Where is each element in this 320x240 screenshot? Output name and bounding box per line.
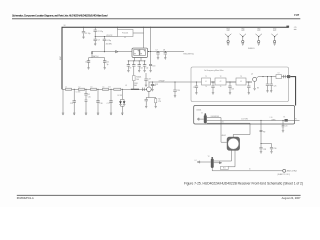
- svg-text:C15: C15: [88, 97, 91, 99]
- svg-text:August 24, 2007: August 24, 2007: [282, 196, 301, 200]
- svg-text:3p: 3p: [107, 64, 109, 66]
- svg-text:E1: E1: [284, 117, 286, 119]
- svg-text:D2 D3: D2 D3: [118, 95, 123, 97]
- svg-text:Schematics, Component Location: Schematics, Component Location Diagrams,…: [12, 15, 108, 18]
- svg-text:42: 42: [220, 81, 222, 83]
- svg-text:T4: T4: [201, 113, 203, 115]
- svg-text:T3: T3: [240, 76, 242, 78]
- svg-text:455 MHz: 455 MHz: [106, 43, 113, 45]
- svg-text:6816532H01-A: 6816532H01-A: [17, 197, 34, 200]
- svg-text:J 25: J 25: [294, 27, 297, 29]
- svg-text:C17: C17: [107, 103, 110, 105]
- svg-text:TP40: TP40: [226, 28, 230, 30]
- svg-text:GND: GND: [226, 30, 229, 32]
- svg-text:L3: L3: [91, 87, 93, 89]
- svg-text:TP40: TP40: [241, 28, 245, 30]
- svg-text:GND: GND: [273, 30, 276, 32]
- svg-text:C25: C25: [274, 86, 277, 88]
- svg-text:Q2: Q2: [251, 73, 253, 75]
- svg-text:LO1: LO1: [221, 122, 224, 124]
- svg-text:2ND LO INJ: 2ND LO INJ: [287, 171, 297, 173]
- svg-text:C7: C7: [156, 49, 158, 51]
- svg-text:SHIELD: SHIELD: [248, 48, 255, 50]
- svg-text:T1: T1: [205, 76, 207, 78]
- svg-text:C22: C22: [108, 86, 111, 88]
- svg-text:LP FLTR: LP FLTR: [106, 35, 113, 37]
- svg-text:.1: .1: [148, 81, 149, 83]
- svg-text:C3: C3: [97, 40, 99, 42]
- svg-text:IF1: IF1: [295, 118, 297, 120]
- svg-text:L2: L2: [79, 87, 81, 89]
- svg-text:C11: C11: [140, 67, 143, 69]
- svg-text:RX1 (SHT 2): RX1 (SHT 2): [184, 53, 195, 55]
- svg-text:C23: C23: [231, 88, 234, 90]
- svg-text:C20: C20: [177, 90, 180, 92]
- svg-text:C9: C9: [129, 67, 131, 69]
- svg-text:C1 12p: C1 12p: [85, 33, 91, 35]
- svg-text:D1: D1: [88, 94, 90, 96]
- svg-text:L6 39n: L6 39n: [76, 92, 81, 94]
- svg-text:(SHEET 2 OF 2): (SHEET 2 OF 2): [278, 174, 291, 176]
- svg-text:43: 43: [240, 81, 242, 83]
- svg-text:R4001: R4001: [136, 77, 141, 79]
- svg-text:RESERVED: RESERVED: [211, 116, 220, 118]
- svg-text:L4: L4: [103, 87, 105, 89]
- svg-text:GND: GND: [257, 30, 260, 32]
- svg-text:C12: C12: [146, 67, 149, 69]
- svg-text:C30: C30: [274, 148, 277, 150]
- svg-text:FL4001: FL4001: [122, 33, 128, 35]
- svg-text:U4001: U4001: [196, 110, 201, 112]
- svg-text:1b: 1b: [205, 86, 207, 88]
- svg-text:C5: C5: [85, 62, 87, 64]
- svg-text:R2: R2: [158, 99, 160, 101]
- svg-text:C18: C18: [155, 84, 158, 86]
- svg-text:R9: R9: [263, 132, 265, 134]
- svg-text:L1: L1: [65, 87, 67, 89]
- svg-text:100: 100: [136, 79, 139, 81]
- svg-text:C4 8p: C4 8p: [106, 40, 111, 42]
- svg-text:270: 270: [158, 101, 161, 103]
- svg-text:C6: C6: [107, 62, 109, 64]
- svg-text:7-87: 7-87: [294, 14, 300, 17]
- svg-text:T2: T2: [220, 76, 222, 78]
- svg-text:1b: 1b: [220, 86, 222, 88]
- svg-text:L5: L5: [125, 85, 127, 87]
- svg-text:50: 50: [249, 169, 251, 171]
- svg-text:21.4 MHZ: 21.4 MHZ: [241, 118, 248, 120]
- svg-text:GND: GND: [241, 30, 244, 32]
- svg-text:C8: C8: [163, 49, 165, 51]
- svg-text:41: 41: [205, 81, 207, 83]
- svg-text:Y2: Y2: [208, 156, 210, 158]
- svg-text:C2 12p: C2 12p: [97, 31, 103, 33]
- svg-text:U4002: U4002: [221, 135, 226, 137]
- svg-text:TP40: TP40: [257, 28, 261, 30]
- svg-text:C19: C19: [148, 79, 151, 81]
- svg-text:1st Frequency Mixer Filter: 1st Frequency Mixer Filter: [204, 69, 224, 72]
- svg-text:CR41: CR41: [134, 83, 138, 85]
- svg-text:R11: R11: [223, 168, 226, 170]
- svg-text:L8: L8: [278, 73, 280, 75]
- svg-text:C31: C31: [285, 126, 288, 128]
- svg-text:R8: R8: [257, 88, 259, 90]
- svg-text:C16: C16: [100, 103, 103, 105]
- svg-text:Figure 7-25. HUD4022A/HUD4022B: Figure 7-25. HUD4022A/HUD4022B Receiver …: [184, 181, 303, 185]
- svg-text:C14: C14: [70, 103, 73, 105]
- svg-text:C13: C13: [152, 65, 155, 67]
- svg-text:L10: L10: [270, 117, 273, 119]
- svg-text:C28: C28: [263, 149, 266, 151]
- svg-text:TP40: TP40: [273, 28, 277, 30]
- svg-text:C21: C21: [193, 87, 196, 89]
